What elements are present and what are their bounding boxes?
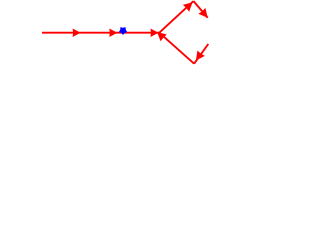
wire: incoming horizontal line [42,32,159,34]
arrowhead 6 (red, pointing back at junction on lower branch) [157,32,167,41]
arrowhead 1 (red, on incoming line) [73,29,81,38]
arrowhead 7 (red, at trough of lower-right segment) [196,51,205,61]
wire: upper branch (junction to peak) [159,1,193,33]
arrowhead 2 (red, on incoming line) [109,29,117,38]
arrowhead 5 (red, end of upper-right segment) [198,8,207,18]
arrowhead 3 (red, on incoming line before junction) [151,29,159,38]
wire: lower-right segment (down-left to trough) [194,44,208,64]
wire: upper-right segment (peak going down-right) [194,1,208,18]
arrowhead 4 (red, at peak of upper branch) [183,2,193,11]
marker (blue star on incoming line) [119,27,127,35]
wire: lower branch (junction to trough) [159,33,194,64]
